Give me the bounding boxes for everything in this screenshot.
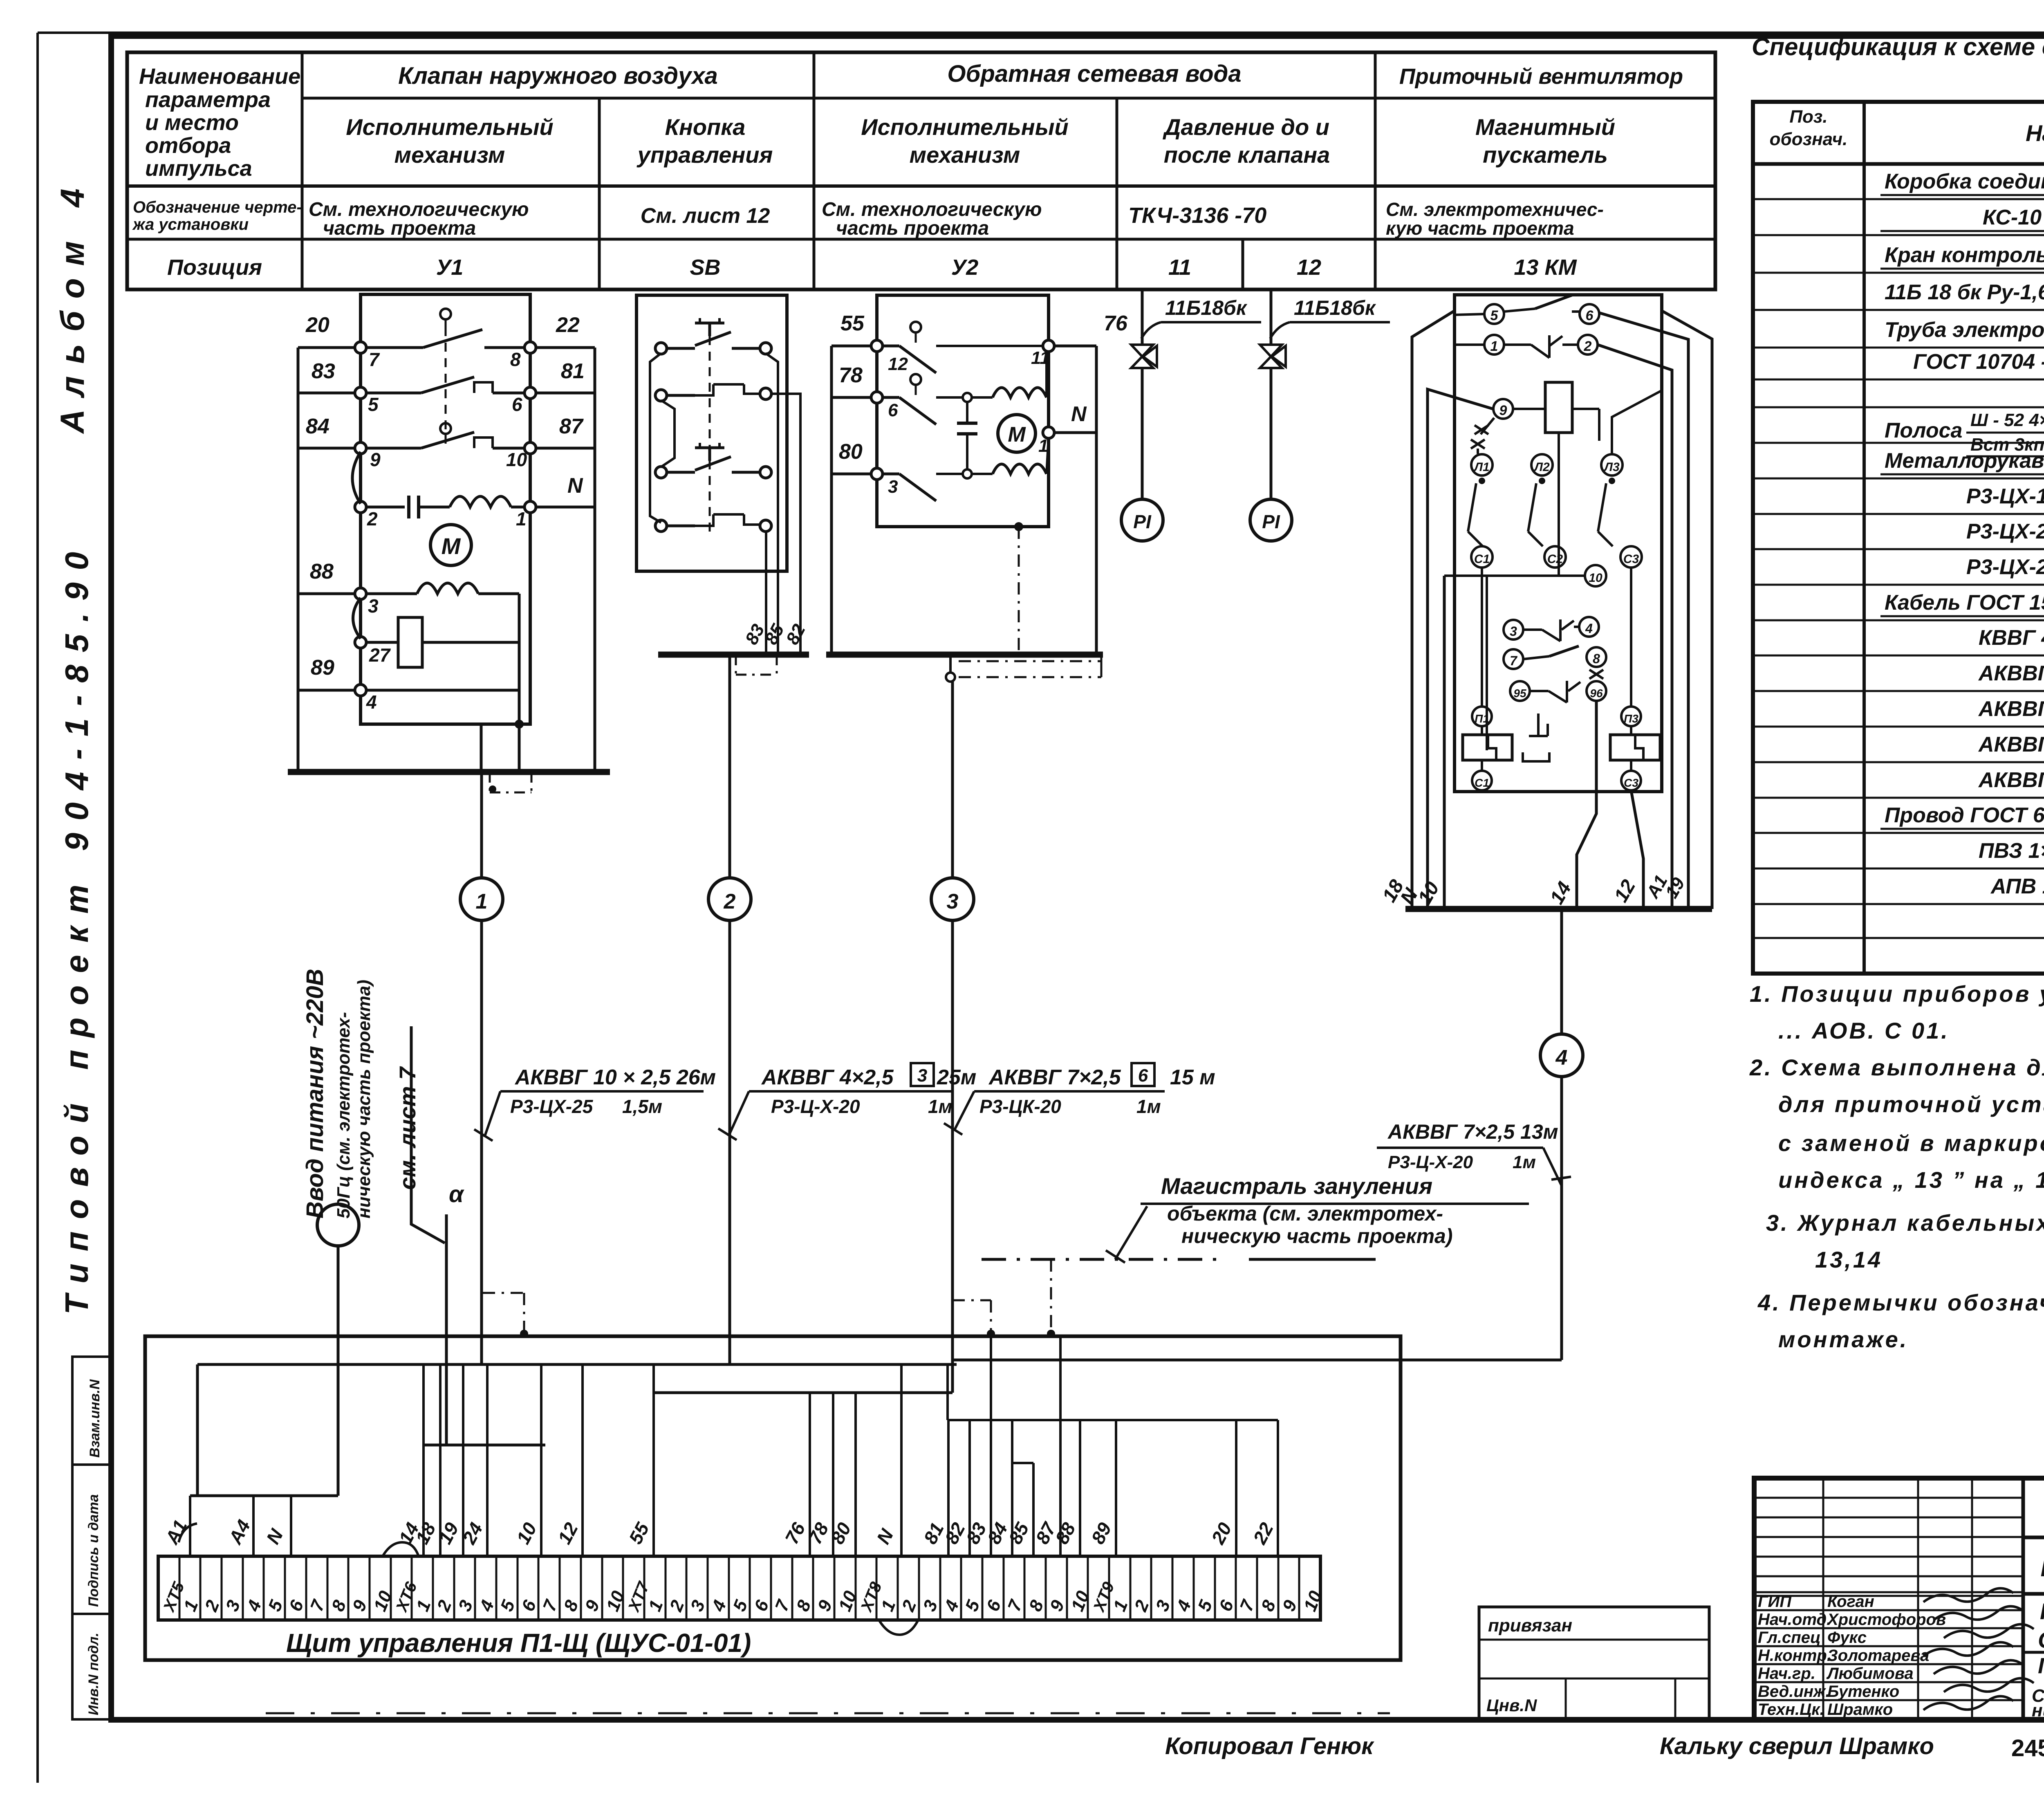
svg-text:1: 1 bbox=[516, 508, 527, 530]
pressure gauge PI bbox=[1121, 499, 1163, 541]
svg-text:См. лист 12: См. лист 12 bbox=[641, 204, 770, 228]
svg-text:13,14: 13,14 bbox=[1815, 1247, 1883, 1272]
device box U1 bbox=[361, 294, 530, 724]
KM wire 19 bbox=[1599, 313, 1688, 909]
svg-text:8: 8 bbox=[510, 349, 521, 370]
svg-text:ГОСТ 10704 - 76: ГОСТ 10704 - 76 bbox=[1913, 350, 2044, 374]
svg-text:ГИП: ГИП bbox=[1758, 1593, 1792, 1611]
svg-text:89: 89 bbox=[311, 656, 334, 680]
svg-text:Коган: Коган bbox=[1827, 1593, 1874, 1611]
grounding dashdot jog near cable1 bbox=[483, 1292, 524, 1294]
svg-text:ническую часть проекта): ническую часть проекта) bbox=[354, 980, 374, 1218]
svg-text:Труба электросварная 26×1.: Труба электросварная 26×1.6 bbox=[1885, 318, 2044, 342]
U1 left rail bbox=[297, 348, 300, 772]
U1 shield dashdot bracket bbox=[489, 772, 491, 792]
KM contact 7-8 bbox=[1504, 649, 1523, 669]
svg-text:1: 1 bbox=[476, 890, 488, 913]
svg-text:Обратная сетевая вода: Обратная сетевая вода bbox=[947, 61, 1241, 87]
svg-text:с заменой в маркировке: с заменой в маркировке аппаратов bbox=[1778, 1130, 2044, 1156]
svg-text:Бутенко: Бутенко bbox=[1827, 1683, 1899, 1701]
svg-text:АКВВГ 7×2,5: АКВВГ 7×2,5 bbox=[988, 1066, 1121, 1089]
cable 1 bbox=[480, 772, 483, 878]
svg-text:для приточной установки П2: для приточной установки П2 схема аналоги… bbox=[1778, 1091, 2044, 1117]
svg-text:7: 7 bbox=[369, 349, 380, 370]
svg-text:кую часть проекта: кую часть проекта bbox=[1386, 218, 1574, 239]
svg-text:1м: 1м bbox=[1136, 1096, 1161, 1117]
svg-text:84: 84 bbox=[306, 415, 329, 438]
svg-text:3: 3 bbox=[1510, 624, 1517, 639]
svg-text:5: 5 bbox=[1490, 308, 1499, 323]
SB button symbol upper bbox=[695, 323, 724, 336]
device box KM bbox=[1455, 295, 1662, 792]
svg-text:9: 9 bbox=[1499, 403, 1507, 418]
svg-text:С3: С3 bbox=[1624, 776, 1638, 789]
svg-text:11Б18бк: 11Б18бк bbox=[1294, 296, 1376, 319]
svg-text:78: 78 bbox=[839, 363, 863, 387]
SB button symbol lower bbox=[695, 448, 724, 461]
svg-text:управления: управления bbox=[637, 142, 773, 168]
svg-text:1. Позиции приборов указаны: 1. Позиции приборов указаны по специфика… bbox=[1750, 981, 2044, 1007]
KM left wing and wire 18 bbox=[1412, 311, 1455, 909]
left margin column boxes bbox=[72, 1357, 111, 1465]
svg-text:22: 22 bbox=[556, 313, 580, 337]
svg-text:и место: и место bbox=[145, 110, 239, 135]
U2 left stubs bbox=[831, 345, 877, 348]
U2 left rail bbox=[830, 346, 833, 655]
svg-text:Техн.Цк.: Техн.Цк. bbox=[1758, 1701, 1824, 1719]
svg-text:4: 4 bbox=[1585, 621, 1593, 636]
svg-text:Шрамко: Шрамко bbox=[1827, 1701, 1893, 1719]
svg-text:объекта (см. электротех-: объекта (см. электротех- bbox=[1167, 1202, 1443, 1225]
fold mark dashdot line bbox=[266, 1712, 1390, 1714]
svg-text:механизм: механизм bbox=[394, 142, 505, 168]
magistral dashdot line bbox=[982, 1258, 1222, 1261]
svg-text:Поз.: Поз. bbox=[1789, 107, 1827, 127]
U1 terminals right bbox=[524, 342, 536, 353]
svg-text:Кран контрольный трехходово: Кран контрольный трехходовой bbox=[1885, 243, 2044, 267]
svg-text:1м: 1м bbox=[928, 1096, 953, 1117]
svg-text:87: 87 bbox=[559, 415, 584, 438]
svg-text:83: 83 bbox=[312, 359, 335, 383]
svg-text:Кнопка: Кнопка bbox=[665, 114, 746, 140]
svg-text:3: 3 bbox=[888, 477, 898, 497]
svg-text:88: 88 bbox=[310, 560, 334, 583]
bus 4 bbox=[1405, 906, 1712, 912]
svg-text:монтаже.: монтаже. bbox=[1778, 1326, 1908, 1352]
KM wire A1 bbox=[1598, 345, 1672, 909]
KM internal column wires bbox=[1481, 568, 1483, 707]
U1 relay rectangle bbox=[398, 617, 422, 667]
svg-text:2: 2 bbox=[367, 508, 378, 530]
svg-text:Копировал Генюк: Копировал Генюк bbox=[1165, 1733, 1374, 1759]
svg-text:25м: 25м bbox=[937, 1066, 976, 1089]
svg-text:4: 4 bbox=[366, 691, 377, 713]
svg-text:27: 27 bbox=[369, 644, 391, 666]
svg-text:Гл.спец: Гл.спец bbox=[1758, 1629, 1821, 1647]
svg-text:Кальку сверил Шрамко: Кальку сверил Шрамко bbox=[1660, 1733, 1934, 1759]
svg-text:α: α bbox=[449, 1181, 464, 1207]
svg-text:Л1: Л1 bbox=[1473, 460, 1489, 474]
svg-text:Альбом 4: Альбом 4 bbox=[54, 176, 91, 434]
SB internal wiring bbox=[666, 347, 695, 350]
svg-text:Золотарева: Золотарева bbox=[1827, 1647, 1929, 1665]
svg-text:Р3-ЦХ-25: Р3-ЦХ-25 bbox=[1966, 555, 2044, 579]
svg-text:М: М bbox=[1008, 423, 1026, 447]
title block left attachment boxes bbox=[1479, 1607, 1709, 1720]
title block object name bbox=[2023, 1592, 2044, 1596]
svg-text:6: 6 bbox=[888, 400, 898, 420]
svg-text:Взам.инв.N: Взам.инв.N bbox=[87, 1379, 103, 1458]
svg-text:них проводок (начало): них проводок (начало) bbox=[2032, 1701, 2044, 1721]
svg-text:ПВЗ 1×1: ПВЗ 1×1 bbox=[1979, 839, 2044, 863]
svg-text:Любимова: Любимова bbox=[1826, 1665, 1914, 1683]
svg-text:1м: 1м bbox=[1513, 1152, 1536, 1172]
svg-text:Щит управления П1-Щ: Щит управления П1-Щ (ЩУС-01-01) bbox=[286, 1628, 751, 1658]
svg-text:Л2: Л2 bbox=[1533, 460, 1550, 474]
svg-text:Спецификация к схеме соединен: Спецификация к схеме соединений внешних … bbox=[1752, 33, 2044, 61]
svg-text:после клапана: после клапана bbox=[1164, 142, 1330, 168]
svg-text:Исполнительный: Исполнительный bbox=[346, 114, 554, 140]
shield bracket bus2 bbox=[735, 655, 737, 675]
U1 contact 7-8 with actuator bbox=[440, 309, 451, 319]
svg-text:отбора: отбора bbox=[145, 133, 231, 158]
KM jumper marks bbox=[1481, 418, 1494, 434]
svg-text:13 КМ: 13 КМ bbox=[1514, 255, 1577, 280]
svg-text:Сантехнические установки: Сантехнические установки bbox=[2038, 1627, 2044, 1653]
panel drops 76 78 80 bbox=[809, 1393, 811, 1556]
svg-text:Р3-Ц-Х-20: Р3-Ц-Х-20 bbox=[771, 1096, 860, 1117]
U2 coil lower bbox=[972, 473, 993, 475]
svg-text:Нач.отд.: Нач.отд. bbox=[1758, 1611, 1831, 1629]
svg-text:П3: П3 bbox=[1624, 712, 1638, 725]
panel feeder B bbox=[654, 1391, 953, 1394]
SB right exit wires bbox=[766, 353, 778, 571]
svg-text:9: 9 bbox=[370, 449, 381, 470]
svg-text:часть проекта: часть проекта bbox=[323, 218, 476, 239]
KM C1 C2 C3 circles bbox=[1471, 546, 1493, 568]
svg-text:Инв.N подл.: Инв.N подл. bbox=[86, 1633, 101, 1715]
svg-text:50Гц (см. электротех-: 50Гц (см. электротех- bbox=[334, 1012, 354, 1218]
svg-text:П1: П1 bbox=[1475, 712, 1489, 725]
svg-text:Типовой проект 904-1-85.90: Типовой проект 904-1-85.90 bbox=[58, 540, 95, 1315]
svg-text:АКВВГ 7×2,5: АКВВГ 7×2,5 bbox=[1978, 733, 2044, 756]
U1 left stubs bbox=[298, 346, 361, 349]
SB left loop wire bbox=[650, 353, 661, 523]
cable 2 bbox=[728, 655, 731, 878]
svg-text:Вед.инж.: Вед.инж. bbox=[1758, 1683, 1830, 1701]
svg-text:11: 11 bbox=[1168, 255, 1191, 280]
svg-text:Приточная установка: Приточная установка bbox=[2038, 1654, 2044, 1678]
svg-text:6: 6 bbox=[1586, 308, 1594, 323]
svg-text:Исполнительный: Исполнительный bbox=[861, 114, 1069, 140]
U1 winding coil lower bbox=[365, 592, 417, 595]
svg-text:Христофоров: Христофоров bbox=[1827, 1611, 1946, 1629]
svg-text:12: 12 bbox=[1297, 255, 1321, 280]
svg-text:Обозначение черте-: Обозначение черте- bbox=[133, 198, 302, 216]
svg-text:См. электротехничес-: См. электротехничес- bbox=[1386, 199, 1604, 220]
svg-text:КВВГ 4×1: КВВГ 4×1 bbox=[1979, 626, 2044, 650]
parameter table grid bbox=[127, 52, 1715, 289]
KM main contact blades bbox=[1479, 478, 1485, 484]
KM top contact 5-6 bbox=[1484, 304, 1504, 324]
svg-text:2. Схема выполнена для прит: 2. Схема выполнена для приточной установ… bbox=[1749, 1055, 2044, 1080]
svg-text:АКВВГ 4×2,5: АКВВГ 4×2,5 bbox=[1978, 662, 2044, 685]
KM wire 12 bbox=[1631, 790, 1643, 909]
svg-text:Р3-ЦХ-15: Р3-ЦХ-15 bbox=[1966, 485, 2044, 508]
svg-text:N: N bbox=[1071, 402, 1087, 426]
svg-text:Р3-ЦХ-20: Р3-ЦХ-20 bbox=[1966, 520, 2044, 543]
bus 1 bbox=[288, 769, 610, 775]
svg-text:АКВВГ 10×2,5: АКВВГ 10×2,5 bbox=[1978, 768, 2044, 792]
strip jumper arcs bbox=[383, 1542, 419, 1556]
panel drops left group bbox=[189, 1496, 191, 1556]
U1 capacitor and coil to N bbox=[365, 506, 405, 509]
svg-text:20: 20 bbox=[305, 313, 329, 337]
grounding dashdot drops bbox=[953, 1299, 991, 1301]
sheet frame bbox=[38, 31, 2044, 34]
svg-text:81: 81 bbox=[561, 359, 585, 383]
panel drop N bbox=[900, 1364, 903, 1556]
svg-text:Кабель ГОСТ 1508-78Е: Кабель ГОСТ 1508-78Е bbox=[1885, 591, 2044, 615]
svg-text:обознач.: обознач. bbox=[1770, 129, 1848, 149]
KM wire 10 horizontal bbox=[1444, 574, 1585, 577]
KM contact 1-2 bbox=[1484, 335, 1504, 355]
svg-text:PI: PI bbox=[1133, 511, 1152, 532]
panel feeder C bbox=[424, 1444, 545, 1447]
svg-text:Магистраль зануления: Магистраль зануления bbox=[1161, 1173, 1432, 1199]
svg-text:95: 95 bbox=[1513, 687, 1526, 700]
U2 right stubs bbox=[1049, 345, 1096, 348]
svg-text:У1: У1 bbox=[436, 255, 464, 280]
sm list 7 line bbox=[411, 1026, 445, 1243]
svg-text:15 м: 15 м bbox=[1170, 1066, 1215, 1089]
title block frame bbox=[1754, 1478, 2044, 1720]
svg-text:Позиция: Позиция bbox=[167, 255, 262, 280]
svg-text:С3: С3 bbox=[1623, 552, 1639, 566]
U1 contact 5-6 bbox=[365, 392, 421, 395]
U1 contact 9-10 with actuator bbox=[440, 423, 451, 434]
bus 2 bbox=[658, 652, 809, 658]
svg-text:8: 8 bbox=[1593, 651, 1600, 666]
KM wire N bbox=[1428, 389, 1493, 909]
svg-text:3: 3 bbox=[368, 595, 379, 617]
svg-text:привязан: привязан bbox=[1488, 1616, 1572, 1636]
KM coil rectangle bbox=[1545, 382, 1572, 433]
panel feeder from cable4 bbox=[953, 1359, 1562, 1362]
svg-text:Клапан наружного воздуха: Клапан наружного воздуха bbox=[398, 63, 718, 89]
svg-text:см. лист 7: см. лист 7 bbox=[394, 1066, 420, 1190]
U2 contact 3 bbox=[882, 473, 899, 476]
svg-text:ТКЧ-3136 -70: ТКЧ-3136 -70 bbox=[1128, 203, 1266, 228]
title block doc number bbox=[2023, 1536, 2044, 1539]
svg-text:Магнитный: Магнитный bbox=[1475, 114, 1615, 140]
svg-text:Ввод питания ~220В: Ввод питания ~220В bbox=[302, 969, 328, 1218]
svg-text:12: 12 bbox=[888, 354, 908, 374]
terminal strip bbox=[158, 1556, 1320, 1620]
U2 contact 12 with actuator bbox=[910, 322, 921, 332]
SB terminals bbox=[655, 343, 667, 354]
svg-text:Р3-Ц-Х-20: Р3-Ц-Х-20 bbox=[1388, 1152, 1473, 1172]
U2 right rail bbox=[1095, 346, 1098, 655]
panel bracket F bbox=[1012, 1462, 1033, 1464]
svg-text:96: 96 bbox=[1590, 687, 1603, 700]
svg-text:Компрессорная станция 5КЦ-160: Компрессорная станция 5КЦ-160 АО bbox=[2040, 1554, 2044, 1582]
svg-text:АКВВГ 4×2,5: АКВВГ 4×2,5 bbox=[761, 1066, 894, 1089]
svg-text:Нач.гр.: Нач.гр. bbox=[1758, 1665, 1815, 1683]
U1 bypass arc 88-27 bbox=[353, 598, 361, 639]
panel drops mid bbox=[540, 1364, 542, 1556]
svg-text:С2: С2 bbox=[1547, 552, 1563, 566]
U2 motor M bbox=[998, 415, 1035, 452]
svg-text:6: 6 bbox=[512, 394, 522, 415]
svg-text:3. Журнал кабельных про: 3. Журнал кабельных проводок - листы bbox=[1766, 1210, 2044, 1236]
pressure gauge PI bbox=[1250, 499, 1292, 541]
svg-text:Компрессорная станция: Компрессорная станция bbox=[2040, 1598, 2044, 1624]
svg-text:3: 3 bbox=[917, 1066, 927, 1086]
svg-text:2: 2 bbox=[724, 890, 736, 913]
panel feeder D bbox=[190, 1494, 338, 1497]
device box U2 bbox=[877, 295, 1049, 527]
svg-text:Наименование: Наименование bbox=[2026, 120, 2044, 146]
svg-text:АКВВГ 5×2,5: АКВВГ 5×2,5 bbox=[1978, 697, 2044, 721]
svg-text:80: 80 bbox=[839, 440, 863, 464]
power input circle bbox=[317, 1204, 359, 1246]
U2 contact 6 with actuator bbox=[910, 374, 921, 385]
KM terminal 10 bbox=[1585, 565, 1606, 586]
KM thermal relays bbox=[1463, 735, 1512, 760]
U1 terminals left bbox=[355, 342, 366, 353]
panel drops XT6 group bbox=[422, 1364, 425, 1556]
panel bracket E bbox=[948, 1419, 1278, 1421]
svg-text:индекса „ 13 ” на: индекса „ 13 ” на „ 17 ” bbox=[1778, 1167, 2044, 1193]
svg-text:Р3-ЦХ-25: Р3-ЦХ-25 bbox=[510, 1096, 594, 1117]
KM right wing bbox=[1662, 311, 1712, 909]
svg-text:11Б 18 бк Ру-1,6МПа, Ду-15: 11Б 18 бк Ру-1,6МПа, Ду-15мм bbox=[1885, 280, 2044, 304]
valve 11B18bk column bbox=[1141, 291, 1144, 345]
svg-text:SB: SB bbox=[690, 255, 720, 280]
KM latch symbol bbox=[1529, 714, 1548, 736]
svg-text:АКВВГ 10 × 2,5 26м: АКВВГ 10 × 2,5 26м bbox=[514, 1066, 716, 1089]
svg-text:часть проекта: часть проекта bbox=[836, 218, 989, 239]
svg-text:АПВ 1×2,5: АПВ 1×2,5 bbox=[1990, 875, 2044, 898]
KM L1 L2 L3 circles bbox=[1471, 454, 1493, 476]
title block signature grid bbox=[1754, 1497, 2023, 1499]
U2 terminals bbox=[871, 340, 883, 352]
svg-text:Р3-ЦК-20: Р3-ЦК-20 bbox=[979, 1096, 1061, 1117]
KM wire 10 vertical bbox=[1443, 576, 1446, 909]
svg-text:Наименование: Наименование bbox=[139, 64, 300, 89]
svg-text:Подпись и дата: Подпись и дата bbox=[86, 1494, 101, 1607]
svg-text:Цнв.N: Цнв.N bbox=[1486, 1696, 1537, 1715]
U1 inner right drop wire bbox=[518, 594, 521, 724]
U2 bottom exit dashdot bbox=[1014, 522, 1023, 531]
svg-text:Коробка соединительная: Коробка соединительная bbox=[1885, 170, 2044, 193]
svg-text:... АОВ. С 01.: ... АОВ. С 01. bbox=[1778, 1018, 1950, 1043]
svg-text:4: 4 bbox=[1555, 1046, 1568, 1070]
U2 shield bracket with circle bbox=[949, 655, 952, 673]
KM contact 3-4 bbox=[1504, 620, 1523, 639]
svg-text:АКВВГ 7×2,5 13м: АКВВГ 7×2,5 13м bbox=[1387, 1120, 1558, 1143]
control panel box bbox=[145, 1336, 1401, 1660]
svg-text:7: 7 bbox=[1510, 653, 1518, 668]
bus 3 bbox=[826, 652, 1103, 658]
svg-text:N: N bbox=[567, 474, 583, 498]
svg-text:Фукс: Фукс bbox=[1827, 1629, 1867, 1647]
KM contact 95-96 bbox=[1510, 681, 1530, 701]
svg-text:КС-10: КС-10 bbox=[1983, 206, 2042, 229]
KM terminal 9 bbox=[1493, 399, 1513, 419]
svg-text:10: 10 bbox=[506, 449, 527, 470]
KM inner block rect bbox=[1486, 576, 1488, 750]
panel feeder A bbox=[197, 1363, 957, 1366]
svg-text:6: 6 bbox=[1138, 1066, 1148, 1086]
svg-text:11Б18бк: 11Б18бк bbox=[1165, 296, 1248, 319]
U1 right stubs bbox=[530, 346, 595, 349]
U1 right rail bbox=[594, 348, 596, 772]
panel drops 20 22 bbox=[1235, 1420, 1237, 1556]
svg-text:1,5м: 1,5м bbox=[622, 1096, 662, 1117]
panel drops XT8 group bbox=[947, 1420, 950, 1556]
svg-text:Провод ГОСТ 6323-79Е: Провод ГОСТ 6323-79Е bbox=[1885, 803, 2044, 827]
svg-text:У2: У2 bbox=[951, 255, 979, 280]
svg-text:3: 3 bbox=[947, 890, 959, 913]
svg-text:параметра: параметра bbox=[145, 88, 271, 112]
svg-text:жа установки: жа установки bbox=[132, 215, 249, 233]
svg-text:1: 1 bbox=[1490, 339, 1498, 354]
U2 coil upper bbox=[972, 396, 993, 399]
U2 capacitor bbox=[963, 393, 972, 402]
svg-text:С1: С1 bbox=[1475, 776, 1489, 789]
valve 11B18bk column bbox=[1270, 291, 1273, 345]
svg-text:PI: PI bbox=[1262, 511, 1280, 532]
svg-text:М: М bbox=[442, 533, 461, 559]
svg-text:24559-04: 24559-04 bbox=[2011, 1735, 2044, 1761]
svg-text:Приточный вентилятор: Приточный вентилятор bbox=[1399, 64, 1683, 89]
title block signatures squiggles bbox=[1923, 1588, 2013, 1602]
svg-text:55: 55 bbox=[840, 312, 865, 335]
svg-text:пускатель: пускатель bbox=[1483, 142, 1608, 168]
cable 3 bbox=[951, 682, 954, 878]
device box SB bbox=[637, 295, 787, 571]
U1 motor M bbox=[430, 525, 471, 565]
KM bottom circles bbox=[1472, 707, 1492, 726]
svg-text:Полоса: Полоса bbox=[1885, 419, 1962, 442]
svg-text:Давление до и: Давление до и bbox=[1163, 114, 1329, 140]
svg-text:механизм: механизм bbox=[910, 142, 1020, 168]
svg-text:2: 2 bbox=[1584, 339, 1592, 354]
KM wire 14 from 96 bbox=[1577, 701, 1596, 909]
svg-text:ническую часть проекта): ническую часть проекта) bbox=[1181, 1225, 1453, 1248]
svg-text:4. Перемычки обозначенные ✱: 4. Перемычки обозначенные ✱✱ , демонтиро… bbox=[1757, 1290, 2044, 1315]
svg-text:Н.контр.: Н.контр. bbox=[1758, 1647, 1831, 1665]
svg-text:импульса: импульса bbox=[145, 156, 252, 181]
svg-text:10: 10 bbox=[1589, 571, 1602, 585]
U1 bypass arc 84-2 bbox=[352, 452, 361, 504]
panel drop A1 hook bbox=[179, 1524, 197, 1542]
cable 4 bbox=[1560, 909, 1563, 1034]
svg-text:Л3: Л3 bbox=[1603, 460, 1620, 474]
svg-text:5: 5 bbox=[368, 394, 379, 415]
svg-text:76: 76 bbox=[1104, 312, 1128, 335]
svg-text:Металлорукав ТУ22-5570-83: Металлорукав ТУ22-5570-83 bbox=[1885, 449, 2044, 473]
KM right vertical inside bbox=[1572, 408, 1599, 410]
specification table grid bbox=[1753, 102, 2044, 974]
U1 drops to bus bbox=[480, 724, 483, 772]
svg-text:Ш - 52 4×14 ГОСТ 103 - 76: Ш - 52 4×14 ГОСТ 103 - 76 bbox=[1970, 410, 2044, 430]
svg-text:С1: С1 bbox=[1474, 552, 1490, 566]
